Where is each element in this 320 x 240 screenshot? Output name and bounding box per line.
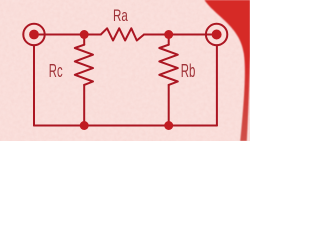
node D (junction Rb/bottom rail) xyxy=(164,121,173,130)
node B (junction Ra/Rb, top) xyxy=(164,30,173,39)
wire bottom rail xyxy=(34,125,217,127)
wire node A to Rc xyxy=(83,35,85,45)
resistor Rb (zigzag body) xyxy=(159,45,178,85)
node A (junction Ra/Rc, top) xyxy=(80,30,89,39)
wire Ra to T2 xyxy=(144,34,217,36)
wire T1 to node A xyxy=(34,34,101,36)
node C (junction Rc/bottom rail) xyxy=(80,121,89,130)
node dot inside terminal T2 xyxy=(212,30,222,40)
wire node B to Rb xyxy=(168,35,170,45)
svg-text:Rc: Rc xyxy=(49,61,63,81)
wire Rc to node C xyxy=(83,85,85,126)
terminal T1 (left port circle) xyxy=(23,24,44,45)
svg-text:Ra: Ra xyxy=(113,7,128,25)
decorative red blob (page background art, top-right) xyxy=(205,0,251,141)
svg-text:Rb: Rb xyxy=(181,61,196,81)
terminal T2 (right port circle) xyxy=(206,24,227,45)
resistor Rc (zigzag body) xyxy=(75,45,93,85)
wire T1 down to bottom rail xyxy=(33,45,35,125)
resistor Ra (zigzag body) xyxy=(101,28,144,40)
wire T2 down to bottom rail xyxy=(216,45,218,125)
wire Rb to node D xyxy=(168,85,170,126)
node dot inside terminal T1 xyxy=(29,30,39,40)
